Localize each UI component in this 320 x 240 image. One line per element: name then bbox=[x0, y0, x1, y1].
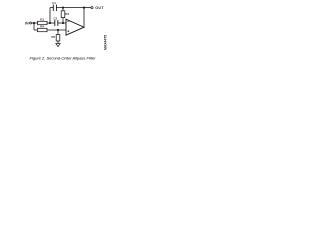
svg-text:R5: R5 bbox=[51, 35, 55, 39]
svg-text:IN: IN bbox=[25, 21, 29, 25]
svg-text:R1: R1 bbox=[40, 17, 44, 21]
svg-text:Figure 2. Second-Order Allpass: Figure 2. Second-Order Allpass Filter bbox=[30, 56, 97, 61]
svg-text:C1: C1 bbox=[52, 1, 56, 5]
svg-text:C2: C2 bbox=[53, 16, 57, 20]
svg-text:R2: R2 bbox=[65, 12, 69, 16]
svg-text:OUT: OUT bbox=[95, 6, 104, 10]
svg-text:R4: R4 bbox=[40, 25, 44, 29]
svg-text:MAX4475: MAX4475 bbox=[104, 35, 108, 50]
